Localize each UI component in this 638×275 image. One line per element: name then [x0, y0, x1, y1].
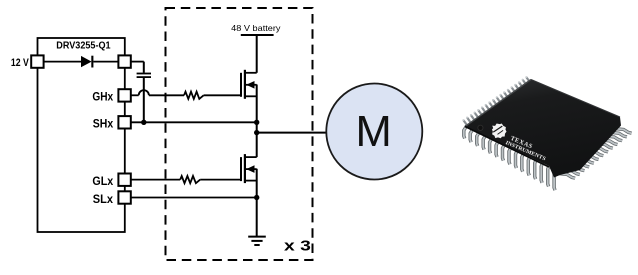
wire phase node to motor — [257, 132, 326, 134]
svg-text:SHx: SHx — [93, 117, 114, 131]
diode D1 — [81, 56, 92, 67]
wire SLx to source node — [131, 197, 257, 199]
transistor Q1 high-side MOSFET — [244, 70, 246, 99]
wire R2 to Q2 gate — [200, 179, 242, 181]
node: cap joins SHx wire — [141, 120, 146, 125]
chip body — [465, 80, 621, 178]
wire battery to Q1 drain — [256, 35, 258, 73]
IC package photo: TI 64-pin QFP — [462, 76, 631, 190]
wire GHx to hop — [131, 94, 139, 96]
pin square GLx — [118, 174, 130, 186]
DRV3255-Q1 block outline U1 — [38, 38, 125, 232]
svg-text:48 V battery: 48 V battery — [231, 24, 281, 33]
pin square SHx — [118, 116, 130, 128]
resistor R2 (low-side gate) — [180, 176, 200, 183]
svg-text:SLx: SLx — [93, 192, 114, 206]
svg-text:GLx: GLx — [92, 174, 113, 188]
motor M1 — [326, 84, 422, 180]
dashed inverter stage boundary box — [166, 8, 313, 260]
svg-text:GHx: GHx — [92, 90, 113, 104]
wire hop over cap lead — [139, 90, 149, 95]
node: SLx joins ground leg — [254, 195, 259, 200]
svg-text:12 V: 12 V — [11, 57, 29, 69]
chip left-front pin row — [464, 126, 556, 190]
wire GLx to R2 — [131, 179, 180, 181]
resistor R1 (high-side gate) — [184, 92, 204, 99]
pin square GHx — [118, 89, 130, 101]
wire cap to SHx node — [143, 78, 145, 122]
wire VM pin to bootstrap cap — [131, 61, 144, 63]
svg-text:M: M — [355, 108, 391, 156]
battery rail bar — [241, 34, 274, 36]
chip back pin row — [462, 76, 529, 125]
chip right-front pin row — [558, 129, 632, 179]
node: phase at SHx — [254, 120, 259, 125]
pin square SLx — [118, 191, 130, 203]
wire R1 to Q1 gate — [204, 94, 242, 96]
wire diode to VM pin — [93, 61, 118, 63]
transistor Q2 low-side MOSFET — [244, 154, 246, 183]
wire Q1 source to phase node — [256, 85, 258, 158]
pin square 12V — [31, 55, 43, 67]
wire hop to gate resistor — [149, 94, 184, 96]
wire 12V pin to diode — [44, 61, 81, 63]
pin square VM — [118, 55, 130, 67]
bootstrap capacitor C1 — [137, 73, 151, 75]
wire SHx to phase node — [131, 121, 257, 123]
node: motor tap — [254, 130, 259, 135]
wire Q2 source to ground — [256, 169, 258, 237]
chip pin-1 dimple — [478, 125, 483, 130]
svg-text:DRV3255-Q1: DRV3255-Q1 — [56, 40, 111, 51]
svg-text:x 3: x 3 — [284, 239, 311, 255]
ground — [248, 236, 266, 238]
chip TI logo — [487, 120, 552, 162]
